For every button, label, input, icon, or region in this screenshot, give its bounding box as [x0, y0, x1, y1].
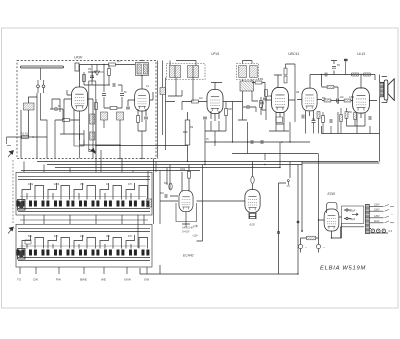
- wafer switch block 2: [18, 249, 26, 260]
- capacitor C6b: [263, 98, 267, 100]
- node ring: [277, 231, 279, 233]
- capacitor C31: [165, 194, 167, 198]
- wires V1: [64, 65, 93, 135]
- socket B: [316, 244, 320, 248]
- wires V6 low: [347, 108, 366, 126]
- transformer core: [365, 205, 369, 234]
- tube V7: [245, 190, 260, 213]
- resistor R30: [188, 171, 191, 178]
- wires R12: [286, 64, 296, 122]
- bank2 bottom stubs: [20, 267, 147, 274]
- wafer switch block: [18, 200, 26, 211]
- svg-text:A1 A2: A1 A2: [21, 132, 28, 136]
- long rail D: [21, 170, 160, 172]
- speaker transformer: [380, 82, 384, 97]
- svg-text:150V: 150V: [374, 208, 380, 211]
- wires V9: [319, 217, 342, 238]
- dashed drop left: [12, 160, 14, 224]
- wires speaker: [379, 75, 387, 162]
- resistor in bank2: [25, 240, 31, 244]
- tiny arrow a: [193, 225, 198, 227]
- coil winding lower: [90, 132, 95, 140]
- svg-text:CW: CW: [33, 278, 38, 282]
- capacitor C3: [102, 94, 106, 96]
- tap switches: [385, 205, 395, 223]
- resistor R3: [109, 63, 116, 66]
- long rail A: [37, 161, 378, 163]
- coil L2: [160, 88, 165, 95]
- IF can C hatch: [240, 81, 254, 91]
- capacitor C9: [325, 73, 327, 77]
- vertical feeds below tuner: [47, 114, 120, 172]
- vertical to PSU: [318, 154, 320, 221]
- wires V3 low: [205, 102, 226, 165]
- resistor R19: [344, 99, 351, 102]
- left bus verticals: [158, 61, 166, 159]
- wires under IF C: [238, 97, 261, 120]
- capacitor C7: [260, 102, 264, 104]
- speaker body: [384, 80, 388, 100]
- svg-text:~: ~: [323, 246, 325, 250]
- node rail: [321, 74, 323, 76]
- capacitor C12: [337, 99, 339, 103]
- wires V8 top: [160, 165, 189, 202]
- speaker cone: [388, 79, 394, 101]
- wires V7: [197, 162, 257, 220]
- out stage extra parts: [322, 116, 325, 123]
- capacitor C4b: [144, 117, 148, 119]
- wires V4 low: [262, 96, 289, 131]
- IF can A: [167, 64, 206, 80]
- choke arrow: [352, 213, 358, 216]
- svg-text:UKW: UKW: [124, 278, 131, 282]
- wire R1: [55, 111, 80, 159]
- bank1 labels: [28, 184, 133, 238]
- capacitor C8: [332, 66, 336, 68]
- svg-text:TO: TO: [17, 278, 22, 282]
- wire tiny: [345, 62, 347, 75]
- resistor R1: [63, 119, 70, 122]
- node end: [301, 230, 303, 232]
- resistor R17: [317, 112, 320, 119]
- svg-text:0-4,5V: 0-4,5V: [182, 231, 190, 234]
- svg-text:PW: PW: [56, 278, 61, 282]
- tube V8: [179, 190, 193, 211]
- wires L1: [21, 93, 37, 159]
- osc cap: [90, 76, 94, 78]
- cap C16: [261, 140, 263, 144]
- osc top wires: [80, 65, 136, 93]
- cap extra: [330, 119, 332, 123]
- svg-text:110V: 110V: [374, 220, 380, 223]
- svg-text:UKW 5-6V: UKW 5-6V: [182, 227, 194, 230]
- capacitor C3b: [120, 94, 124, 96]
- svg-text:~: ~: [305, 246, 307, 250]
- cap 50uF stub: [331, 61, 337, 75]
- resistor R9: [225, 109, 228, 116]
- ground plug arrow 2: [8, 227, 14, 234]
- volume pot: [185, 120, 190, 145]
- wires V2: [128, 76, 153, 123]
- resistor R4: [83, 75, 86, 82]
- svg-text:WE: WE: [101, 278, 106, 282]
- wire R8-V3: [166, 102, 208, 111]
- bank top feeds: [24, 159, 133, 173]
- mains drops: [301, 238, 319, 253]
- resistor R7: [137, 116, 140, 123]
- bank1 mid bars: [20, 196, 146, 198]
- bank1 jumpers: [22, 183, 148, 200]
- tap labels: [374, 204, 380, 224]
- svg-text:ECH42: ECH42: [183, 254, 194, 258]
- resistor R18 between: [324, 99, 331, 102]
- svg-text:≈12V: ≈12V: [192, 235, 198, 238]
- band labels: [17, 278, 149, 282]
- tube V5: [302, 88, 317, 111]
- pot P2 hatch: [147, 199, 152, 207]
- tube V6: [353, 88, 370, 113]
- wire antenna input: [7, 136, 48, 138]
- IF can B: [237, 64, 259, 80]
- pickup stub: [287, 182, 291, 187]
- grid cap V4: [274, 75, 282, 88]
- bank 1 box: [16, 172, 152, 215]
- tiny rect above rail: [344, 59, 348, 61]
- capacitor C20: [55, 107, 57, 111]
- bottom long wire: [140, 162, 298, 275]
- long rail B: [47, 164, 302, 166]
- wires V8 low: [182, 212, 190, 228]
- top supply rail: [310, 75, 375, 89]
- capacitor C40: [344, 209, 351, 211]
- svg-text:ELBIA W519M: ELBIA W519M: [320, 266, 366, 272]
- resistor R12: [284, 68, 287, 75]
- svg-text:1M: 1M: [190, 127, 193, 129]
- tube V1 UCH42: [72, 87, 88, 111]
- junction dots: [103, 60, 361, 165]
- svg-text:1M: 1M: [88, 69, 91, 71]
- svg-text:BWE: BWE: [80, 278, 87, 282]
- tube V3: [207, 90, 223, 114]
- svg-text:UF41: UF41: [211, 52, 220, 56]
- resistor R10: [255, 81, 262, 84]
- node ring2: [297, 221, 299, 223]
- capacitor C14b: [312, 121, 316, 123]
- capacitor C11: [302, 115, 304, 119]
- svg-text:UL41: UL41: [357, 52, 365, 56]
- pickup switch: [287, 180, 289, 182]
- antenna: [21, 66, 64, 137]
- wire R5b: [108, 65, 110, 86]
- resistor R22: [354, 113, 357, 120]
- under V5/V6 parts: [306, 112, 371, 134]
- resistor R6: [95, 103, 98, 110]
- fuse F1: [22, 136, 29, 139]
- wires V4: [265, 100, 295, 122]
- can0 overlay b: [143, 64, 147, 74]
- tube V9: [324, 209, 339, 231]
- capacitor C30: [169, 183, 172, 190]
- inter-bank wire: [20, 219, 148, 221]
- resistor R20 vert: [90, 114, 95, 124]
- capacitor C5: [203, 117, 207, 119]
- capacitor C4: [126, 107, 130, 109]
- socket A: [298, 244, 302, 248]
- svg-text:125V: 125V: [374, 215, 380, 218]
- capacitor C32: [251, 176, 254, 183]
- svg-text:UBC41: UBC41: [288, 52, 299, 56]
- capacitor C6: [247, 105, 249, 109]
- resistor R13b: [276, 117, 283, 123]
- capacitor C41: [344, 217, 351, 219]
- wires V6: [353, 101, 377, 123]
- bank1 under-lines: [18, 209, 150, 212]
- wires V5: [297, 100, 322, 121]
- secondary taps: [370, 206, 384, 223]
- bank2 under-lines: [18, 258, 150, 261]
- svg-text:6J5: 6J5: [250, 223, 255, 227]
- bank2 jumpers: [22, 235, 148, 249]
- svg-text:0,5M: 0,5M: [349, 97, 354, 99]
- wire C20: [50, 99, 63, 120]
- bank2 mid bars: [20, 245, 146, 247]
- antenna plug arrow: [7, 137, 14, 157]
- wires V2 low: [138, 120, 146, 159]
- svg-text:470p: 470p: [28, 184, 34, 186]
- svg-text:220V: 220V: [374, 204, 380, 207]
- mid vertical drop: [197, 165, 203, 242]
- rail D extend: [160, 170, 200, 172]
- arrow R20: [89, 149, 96, 154]
- resistor R15: [364, 73, 371, 76]
- resistor R11: [260, 101, 263, 108]
- tiny value labels: [58, 61, 354, 195]
- svg-text:GW: GW: [144, 278, 149, 282]
- tuner dashed box: [17, 61, 156, 159]
- trimmer T1: [95, 71, 100, 75]
- svg-text:EZ40: EZ40: [328, 192, 336, 196]
- tube V4: [272, 87, 289, 112]
- coil L3: [101, 112, 108, 120]
- wires IF B/C: [233, 61, 266, 113]
- IF can 0 above V2: [136, 63, 149, 76]
- svg-text:4700: 4700: [54, 184, 60, 186]
- resistor R6b: [110, 107, 117, 110]
- oscillator coil former: [89, 81, 96, 152]
- resistor R14: [352, 73, 359, 76]
- coil L1: [24, 103, 35, 110]
- bank2 bus: [18, 228, 150, 231]
- resistor R12b: [284, 76, 287, 83]
- capacitor C2: [113, 83, 115, 87]
- bank2 contact row: [17, 250, 150, 256]
- mid rail E: [96, 145, 187, 147]
- v3 to canB drop: [232, 102, 234, 143]
- wafer inner: [19, 202, 23, 209]
- resistor R8: [192, 100, 199, 103]
- bank1 bus: [18, 176, 150, 179]
- res extra: [340, 115, 343, 122]
- dial lamps: [371, 229, 375, 233]
- capacitor C13: [369, 116, 371, 120]
- tuner inner verticals: [60, 99, 120, 145]
- stage box V8: [176, 203, 197, 222]
- osc coil pack: [75, 63, 79, 71]
- bank1 contact row: [17, 201, 150, 207]
- node: [281, 141, 283, 143]
- lower winding line: [341, 227, 389, 238]
- V1 cathode drops: [74, 134, 84, 159]
- wires IF A down: [168, 61, 196, 102]
- svg-text:0,5M: 0,5M: [258, 79, 263, 81]
- wire former top: [92, 72, 104, 81]
- wires V3: [211, 83, 233, 122]
- lamp dots: [373, 230, 384, 232]
- bank gap stubs: [24, 215, 144, 224]
- right stage outline: [302, 126, 379, 231]
- mid rails right: [205, 122, 318, 168]
- right of banks verticals: [138, 159, 170, 249]
- can0 overlay: [137, 64, 141, 74]
- mains loop: [301, 223, 342, 238]
- wafer2 inner: [19, 251, 23, 258]
- tube V2: [135, 89, 150, 111]
- filter box: [342, 206, 364, 223]
- extra junction dots: [95, 141, 332, 274]
- node: [32, 136, 34, 138]
- cap C15: [251, 140, 253, 144]
- svg-text:1M: 1M: [296, 92, 299, 94]
- svg-text:6,3: 6,3: [389, 230, 393, 233]
- grid stub V1: [67, 90, 72, 95]
- svg-text:50µF: 50µF: [350, 218, 356, 221]
- rectifier top loop: [327, 202, 338, 213]
- resistor R16 feed: [327, 86, 334, 89]
- mains resistor: [307, 236, 316, 240]
- svg-text:50µF: 50µF: [350, 209, 356, 212]
- wire feed: [322, 87, 339, 104]
- bank 2 box: [16, 224, 152, 267]
- pot wires: [183, 112, 188, 162]
- svg-text:~: ~: [391, 213, 393, 217]
- svg-text:UKW: UKW: [74, 56, 83, 60]
- coil L4: [117, 112, 124, 120]
- wires out extra: [323, 108, 341, 134]
- wires osc mid: [96, 97, 122, 145]
- resistor R5b: [108, 69, 111, 76]
- resistor R21: [345, 112, 348, 119]
- long rail C: [55, 167, 280, 169]
- resistor R13: [265, 90, 268, 97]
- wires V5-V6: [322, 101, 353, 105]
- osc wire: [91, 65, 93, 86]
- V7 base: [250, 214, 256, 219]
